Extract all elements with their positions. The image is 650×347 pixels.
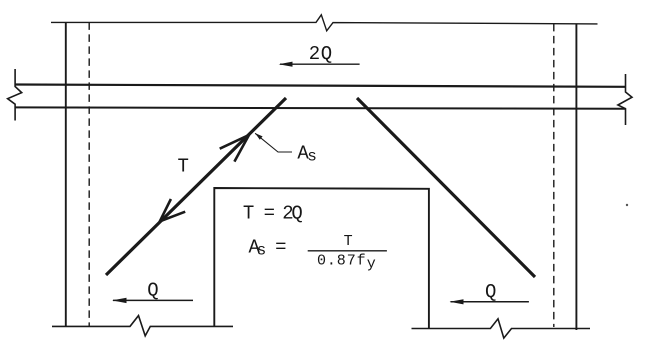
svg-text:T: T bbox=[178, 156, 189, 178]
svg-text:0.87f: 0.87f bbox=[317, 252, 367, 269]
svg-text:y: y bbox=[367, 256, 376, 273]
svg-text:=: = bbox=[264, 202, 275, 224]
svg-text:2Q: 2Q bbox=[282, 202, 302, 224]
svg-text:s: s bbox=[257, 242, 267, 260]
svg-text:s: s bbox=[307, 148, 317, 166]
svg-text:T: T bbox=[344, 233, 353, 250]
svg-text:T: T bbox=[243, 202, 254, 224]
svg-text:Q: Q bbox=[147, 279, 158, 301]
svg-text:=: = bbox=[275, 237, 286, 259]
svg-text:Q: Q bbox=[485, 281, 496, 303]
svg-text:2Q: 2Q bbox=[309, 43, 333, 65]
